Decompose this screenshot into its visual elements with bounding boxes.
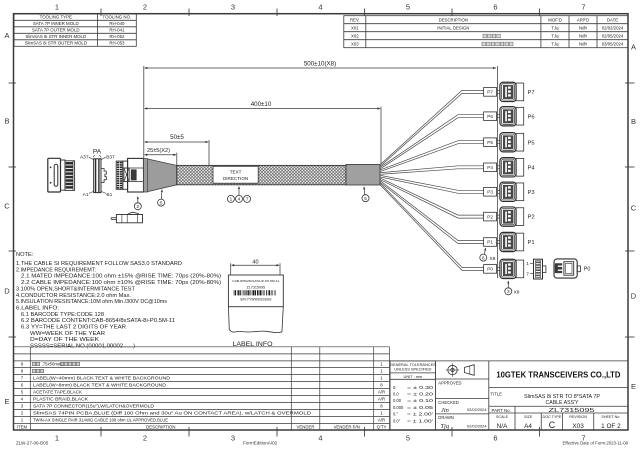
svg-text:5: 5 bbox=[160, 200, 163, 205]
dimension 40 for label bbox=[231, 263, 280, 274]
svg-text:DESCRIPTION: DESCRIPTION bbox=[146, 425, 175, 430]
svg-text:X03: X03 bbox=[572, 423, 584, 430]
strain relief boot (25±5 X2) bbox=[144, 159, 177, 192]
svg-text:2.2 CABLE IMPEDANCE:100 ohm ±1: 2.2 CABLE IMPEDANCE:100 ohm ±10% @RISE T… bbox=[21, 280, 221, 286]
acetate tape wrap (item 5) bbox=[346, 164, 380, 185]
svg-text:E: E bbox=[4, 397, 9, 406]
svg-text:A/R: A/R bbox=[378, 397, 385, 402]
svg-text:= ± 0.05: = ± 0.05 bbox=[407, 405, 434, 410]
svg-text:P6: P6 bbox=[528, 114, 535, 120]
wire marker label P6 (item 6) bbox=[484, 112, 497, 121]
svg-text:B: B bbox=[631, 117, 636, 126]
svg-text:LABEL(W=40mm) BLACK TEXT & WHI: LABEL(W=40mm) BLACK TEXT & WHITE BACKGRO… bbox=[33, 376, 170, 381]
grid row letters right bbox=[631, 43, 637, 392]
balloon 2 pointer to PA overmold bbox=[134, 203, 141, 210]
svg-text:2.IMPEDANCE REQUIREMEMT:: 2.IMPEDANCE REQUIREMEMT: bbox=[16, 267, 96, 273]
svg-text:1: 1 bbox=[230, 197, 233, 202]
svg-text:SlimSAS 8i STR TO 8*SATA 7P: SlimSAS 8i STR TO 8*SATA 7P bbox=[524, 394, 601, 400]
svg-text:2: 2 bbox=[21, 411, 24, 416]
svg-text:P1: P1 bbox=[528, 240, 535, 246]
svg-text:= ± 0.30: = ± 0.30 bbox=[407, 385, 434, 390]
svg-text:1: 1 bbox=[21, 418, 24, 423]
svg-text:TJq: TJq bbox=[551, 33, 559, 38]
svg-text:500±10(X8): 500±10(X8) bbox=[304, 61, 336, 68]
svg-text:02/05/2024: 02/05/2024 bbox=[602, 33, 624, 38]
svg-text:2: 2 bbox=[143, 434, 147, 443]
wire marker label P2 (item 6) bbox=[484, 212, 497, 221]
connector P7 SATA 7P (item 3) bbox=[500, 82, 524, 101]
svg-text:RH-040: RH-040 bbox=[109, 21, 125, 26]
svg-text:UNLESS SPECIFIED: UNLESS SPECIFIED bbox=[394, 367, 431, 372]
svg-text:RH-053: RH-053 bbox=[109, 41, 125, 46]
connector P4 SATA 7P (item 3) bbox=[500, 158, 524, 177]
svg-text:8: 8 bbox=[380, 404, 383, 409]
svg-text:4: 4 bbox=[318, 3, 322, 12]
svg-text:A: A bbox=[631, 43, 636, 52]
svg-text:ITEM: ITEM bbox=[17, 425, 28, 430]
svg-text:TJq: TJq bbox=[551, 41, 559, 46]
svg-text:INITIAL DESIGN: INITIAL DESIGN bbox=[437, 25, 469, 30]
svg-text:REV.: REV. bbox=[350, 17, 360, 22]
wire marker label P5 (item 6) bbox=[484, 138, 497, 147]
svg-text:1: 1 bbox=[526, 261, 529, 266]
svg-text:02/02/2024: 02/02/2024 bbox=[602, 25, 624, 30]
connector P6 SATA 7P (item 3) bbox=[500, 107, 524, 126]
svg-text:B: B bbox=[4, 117, 9, 126]
balloon 5 pointer to acetate tape bbox=[362, 195, 369, 202]
svg-text:1: 1 bbox=[380, 362, 383, 367]
connector P1 SATA 7P (item 3) bbox=[500, 232, 524, 251]
TEXT DIRECTION marker box bbox=[213, 166, 258, 183]
svg-text:02/02/2024: 02/02/2024 bbox=[467, 424, 487, 429]
svg-text:APPROVED: APPROVED bbox=[438, 380, 461, 385]
svg-text:10GTEK TRANSCEIVERS CO.,LTD: 10GTEK TRANSCEIVERS CO.,LTD bbox=[496, 369, 620, 379]
svg-text:SCALE: SCALE bbox=[496, 415, 509, 419]
svg-text:PLASTIC BRAID,BLACK: PLASTIC BRAID,BLACK bbox=[33, 397, 88, 402]
svg-text:4: 4 bbox=[21, 397, 24, 402]
svg-text:PART No.: PART No. bbox=[492, 408, 511, 413]
svg-text:SATA 7P INNER MOLD: SATA 7P INNER MOLD bbox=[33, 21, 79, 26]
svg-text:WW=WEEK OF THE YEAR: WW=WEEK OF THE YEAR bbox=[30, 331, 105, 337]
svg-text:SIZE: SIZE bbox=[524, 415, 533, 419]
svg-text:3: 3 bbox=[507, 289, 510, 294]
svg-text:P5: P5 bbox=[487, 140, 493, 145]
grid row letters left bbox=[4, 31, 10, 406]
title block frame bbox=[390, 361, 629, 430]
svg-text:TOOLING TYPE: TOOLING TYPE bbox=[40, 15, 72, 20]
svg-text:6.3 YY=THE LAST 2 DIGITS OF YE: 6.3 YY=THE LAST 2 DIGITS OF YEAR bbox=[21, 325, 126, 331]
svg-text:5.INSULATION RESISTANCE:10M oh: 5.INSULATION RESISTANCE:10M ohm Min./300… bbox=[16, 299, 167, 305]
dimension 25±5(X2) bbox=[145, 153, 177, 165]
svg-text:D=DAY OF THE WEEK: D=DAY OF THE WEEK bbox=[30, 337, 99, 343]
svg-text:DATE: DATE bbox=[607, 17, 618, 22]
general tolerances block text bbox=[390, 362, 436, 423]
svg-text:6.LABEL INFO:: 6.LABEL INFO: bbox=[16, 306, 59, 312]
svg-text:Ndh: Ndh bbox=[579, 33, 587, 38]
svg-text:= ± 2.00': = ± 2.00' bbox=[407, 412, 433, 417]
svg-text:VENDER P/N: VENDER P/N bbox=[334, 425, 360, 430]
svg-text:S/N:YYWWDSSSSS: S/N:YYWWDSSSSS bbox=[240, 297, 272, 301]
svg-text:X01: X01 bbox=[351, 25, 359, 30]
svg-text:E: E bbox=[631, 382, 636, 391]
svg-text:6: 6 bbox=[493, 3, 497, 12]
svg-text:5: 5 bbox=[406, 434, 410, 443]
svg-text:2: 2 bbox=[143, 3, 147, 12]
dimension 500±10(X8) bbox=[144, 66, 498, 278]
svg-text:APP'D: APP'D bbox=[577, 17, 590, 22]
svg-text:MOF'D: MOF'D bbox=[548, 17, 561, 22]
svg-text:Ndh: Ndh bbox=[579, 41, 587, 46]
svg-text:P7: P7 bbox=[528, 90, 535, 96]
svg-text:4.CONDUCTOR RESISTANCE:2.0 ohm: 4.CONDUCTOR RESISTANCE:2.0 ohm Max. bbox=[16, 293, 131, 299]
svg-text:Q'TY: Q'TY bbox=[377, 425, 387, 430]
PA connector latch side view bbox=[111, 212, 142, 223]
svg-text:RH-052: RH-052 bbox=[109, 34, 125, 39]
svg-text:0.°: 0.° bbox=[393, 412, 398, 417]
svg-text:3: 3 bbox=[231, 434, 235, 443]
svg-text:,75x50mm,: ,75x50mm, bbox=[42, 362, 63, 367]
connector PA overmold (item 2) bbox=[116, 158, 143, 192]
svg-text:SHEET No.: SHEET No. bbox=[601, 415, 620, 419]
svg-text:1.THE CABLE SI REQUIREMENT FOL: 1.THE CABLE SI REQUIREMENT FOLLOW SAS3.0… bbox=[16, 261, 182, 267]
svg-text:02/02/2024: 02/02/2024 bbox=[467, 407, 487, 412]
connector PA side view with PA A37 B37 A1 B1 labels bbox=[89, 155, 106, 193]
svg-text:6: 6 bbox=[482, 255, 485, 260]
balloon 3 X8 pointer to P0 connector bbox=[505, 288, 512, 295]
svg-text:25±5(X2): 25±5(X2) bbox=[147, 148, 170, 154]
svg-text:SATA 7P OUTER MOLD: SATA 7P OUTER MOLD bbox=[32, 28, 80, 33]
svg-text:TJq: TJq bbox=[551, 25, 559, 30]
grid column numbers bottom bbox=[55, 434, 586, 443]
connector P0 SATA 7P (item 3) bbox=[500, 259, 524, 278]
svg-text:A4: A4 bbox=[524, 423, 532, 430]
svg-text:PA: PA bbox=[93, 148, 102, 155]
svg-text:D: D bbox=[631, 292, 637, 301]
connector P2 SATA 7P (item 3) bbox=[500, 207, 524, 226]
svg-text:A1: A1 bbox=[83, 192, 89, 198]
svg-text:Jin: Jin bbox=[441, 407, 449, 414]
svg-text:1: 1 bbox=[380, 411, 383, 416]
wire fanout: 8 twin-ax pairs bbox=[380, 90, 500, 270]
connector P5 SATA 7P (item 3) bbox=[500, 133, 524, 152]
grid column numbers top bbox=[55, 3, 586, 12]
notes text block bbox=[16, 252, 221, 350]
svg-text:ZL7315095: ZL7315095 bbox=[246, 285, 265, 289]
svg-text:P1: P1 bbox=[487, 240, 493, 245]
svg-text:X03: X03 bbox=[351, 41, 359, 46]
svg-text:3.100% OPEN,SHORT&INTERMITANCE: 3.100% OPEN,SHORT&INTERMITANCE TEST bbox=[16, 286, 136, 292]
svg-text:A37: A37 bbox=[80, 155, 89, 161]
svg-text:0.0°: 0.0° bbox=[393, 418, 401, 423]
svg-text:3: 3 bbox=[21, 404, 24, 409]
scale size doc type revision sheet row bbox=[496, 415, 621, 430]
svg-text:P2: P2 bbox=[528, 215, 535, 221]
svg-text:ZLW-27-06-B05: ZLW-27-06-B05 bbox=[16, 441, 49, 446]
svg-text:P3: P3 bbox=[487, 190, 493, 195]
svg-text:Effective Date of Form:2023-11: Effective Date of Form:2023-11-08 bbox=[562, 441, 628, 446]
balloon 5 pointer to boot bbox=[158, 199, 165, 206]
svg-text:= ± 0.20: = ± 0.20 bbox=[407, 392, 434, 397]
svg-text:03/05/2024: 03/05/2024 bbox=[602, 41, 624, 46]
svg-text:B1: B1 bbox=[106, 192, 112, 198]
svg-text:= ± 1.00': = ± 1.00' bbox=[407, 418, 433, 423]
connector P0 mating end view bbox=[554, 259, 580, 278]
svg-text:5: 5 bbox=[21, 390, 24, 395]
svg-text:A: A bbox=[4, 31, 9, 40]
svg-text:1: 1 bbox=[55, 434, 59, 443]
svg-text:P7: P7 bbox=[487, 90, 493, 95]
svg-text:ZL7315095: ZL7315095 bbox=[549, 408, 595, 414]
svg-text:DRAWN: DRAWN bbox=[438, 415, 454, 420]
svg-text:A/R: A/R bbox=[378, 390, 385, 395]
svg-text:6.1 BARCODE TYPE:CODE 128: 6.1 BARCODE TYPE:CODE 128 bbox=[21, 312, 104, 318]
svg-text:P4: P4 bbox=[487, 165, 493, 170]
svg-text:TOOLING NO.: TOOLING NO. bbox=[103, 15, 132, 20]
svg-text:5: 5 bbox=[364, 196, 367, 201]
svg-text:N/A: N/A bbox=[497, 423, 508, 430]
svg-text:REVISION: REVISION bbox=[569, 415, 587, 419]
BOM row 8 chinese bag text marks bbox=[33, 369, 36, 372]
svg-text:SlimSAS 8i STR OUTER MOLD: SlimSAS 8i STR OUTER MOLD bbox=[25, 41, 87, 46]
svg-text:RH-041: RH-041 bbox=[109, 28, 125, 33]
label (item 7) barcode label drawing bbox=[228, 275, 283, 307]
svg-text:SATA 7P CONNECTOR(15u"),W/LATC: SATA 7P CONNECTOR(15u"),W/LATCH&OVERMOLD bbox=[33, 404, 154, 409]
svg-text:VENDER: VENDER bbox=[297, 425, 315, 430]
svg-text:X8: X8 bbox=[490, 256, 496, 262]
svg-text:LABEL(W=8mm) BLACK TEXT & WHIT: LABEL(W=8mm) BLACK TEXT & WHITE BACKGROU… bbox=[33, 383, 166, 388]
svg-text:P6: P6 bbox=[487, 114, 493, 119]
svg-text:0.0: 0.0 bbox=[393, 392, 399, 397]
BOM parts table bbox=[14, 347, 390, 430]
svg-text:400±10: 400±10 bbox=[251, 101, 272, 108]
svg-text:FormEditionA/02: FormEditionA/02 bbox=[243, 441, 278, 446]
tooling table bbox=[14, 14, 136, 47]
svg-text:0.000: 0.000 bbox=[393, 405, 404, 410]
svg-text:7: 7 bbox=[526, 272, 529, 277]
wire marker label P3 (item 6) bbox=[484, 188, 497, 197]
svg-text:7: 7 bbox=[21, 376, 24, 381]
svg-text:40: 40 bbox=[252, 260, 258, 266]
svg-text:P4: P4 bbox=[528, 165, 536, 171]
svg-text:NOTE:: NOTE: bbox=[16, 252, 34, 258]
BOM table text bbox=[17, 362, 387, 430]
svg-text:C: C bbox=[549, 420, 556, 430]
connector PA front view bbox=[48, 158, 75, 192]
svg-text:7: 7 bbox=[581, 3, 585, 12]
svg-text:B37: B37 bbox=[106, 155, 115, 161]
svg-text:3: 3 bbox=[231, 3, 235, 12]
svg-text:2: 2 bbox=[137, 204, 140, 209]
svg-text:0.: 0. bbox=[393, 385, 396, 390]
svg-text:6: 6 bbox=[493, 434, 497, 443]
svg-text:8: 8 bbox=[380, 383, 383, 388]
svg-text:0.00: 0.00 bbox=[393, 398, 402, 403]
wire marker label P0 (item 6) bbox=[484, 265, 497, 274]
svg-text:Ndh: Ndh bbox=[579, 25, 587, 30]
svg-text:CHECKED: CHECKED bbox=[438, 400, 458, 405]
svg-text:5: 5 bbox=[406, 3, 410, 12]
wire marker label P7 (item 6) bbox=[484, 88, 497, 97]
connector P3 SATA 7P (item 3) bbox=[500, 182, 524, 201]
svg-text:A/R: A/R bbox=[378, 418, 385, 423]
svg-text:D: D bbox=[4, 287, 10, 296]
plastic braid cable section (item 4) bbox=[177, 165, 346, 184]
dimension 400±10 bbox=[145, 107, 381, 165]
svg-text:UNIT : mm: UNIT : mm bbox=[404, 374, 423, 379]
revision table bbox=[344, 16, 628, 48]
svg-text:SlimSAS 8i STR INNER MOLD: SlimSAS 8i STR INNER MOLD bbox=[25, 34, 86, 39]
svg-text:X02: X02 bbox=[351, 33, 359, 38]
svg-text:TITLE: TITLE bbox=[491, 392, 503, 397]
svg-text:4: 4 bbox=[318, 434, 322, 443]
connector P0 side view with pins 1 and 7 bbox=[530, 259, 546, 279]
svg-text:DESCRIPTION: DESCRIPTION bbox=[439, 17, 468, 22]
svg-text:4: 4 bbox=[238, 197, 241, 202]
wire marker label P1 (item 6) bbox=[484, 238, 497, 247]
dimension 50±5 bbox=[145, 140, 209, 165]
svg-text:1: 1 bbox=[55, 3, 59, 12]
svg-text:1: 1 bbox=[380, 376, 383, 381]
svg-text:ACETATE TAPE,BLACK: ACETATE TAPE,BLACK bbox=[33, 390, 82, 395]
svg-text:50±5: 50±5 bbox=[170, 134, 184, 141]
svg-text:7: 7 bbox=[246, 197, 249, 202]
svg-text:TWIN-AX SINGLE PAIR 31AWG CABL: TWIN-AX SINGLE PAIR 31AWG CABLE 100 ohm … bbox=[33, 418, 168, 423]
svg-text:= ± 0.10: = ± 0.10 bbox=[407, 398, 434, 403]
svg-text:6: 6 bbox=[21, 383, 24, 388]
svg-text:P0: P0 bbox=[584, 267, 591, 273]
svg-text:TEXT: TEXT bbox=[230, 170, 242, 175]
svg-text:P2: P2 bbox=[487, 214, 493, 219]
svg-text:P5: P5 bbox=[528, 140, 535, 146]
svg-text:SlimSAS 74PIN PCBA,BLUE (Diff: SlimSAS 74PIN PCBA,BLUE (Diff 100 Ohm an… bbox=[33, 411, 311, 416]
svg-text:Tjq: Tjq bbox=[441, 423, 450, 430]
svg-text:9: 9 bbox=[21, 362, 24, 367]
svg-text:DIRECTION: DIRECTION bbox=[223, 176, 248, 181]
svg-text:2.1 MATED IMPEDANCE:100 ohm ±1: 2.1 MATED IMPEDANCE:100 ohm ±15% @RISE T… bbox=[21, 274, 221, 280]
svg-text:C: C bbox=[4, 202, 10, 211]
svg-text:1 OF 2: 1 OF 2 bbox=[601, 423, 621, 430]
third angle projection symbol bbox=[446, 363, 474, 376]
svg-text:1: 1 bbox=[380, 369, 383, 374]
revision X02 X03 chinese description marks bbox=[482, 34, 513, 46]
svg-text:CAB-8654/8xSATA-8i-P0.5M-11: CAB-8654/8xSATA-8i-P0.5M-11 bbox=[232, 279, 279, 283]
svg-text:C: C bbox=[631, 204, 637, 213]
svg-text:P0: P0 bbox=[487, 267, 493, 272]
label backing outline with wavy bottom bbox=[228, 307, 283, 333]
balloon 6 X8 pointer to P1 label bbox=[480, 254, 487, 261]
BOM row 9 chinese packaging box text marks bbox=[33, 362, 36, 365]
svg-text:CABLE ASS'Y: CABLE ASS'Y bbox=[546, 400, 580, 406]
svg-text:DOC TYPE: DOC TYPE bbox=[543, 415, 562, 419]
svg-text:6.2 BARCODE CONTENT:CAB-8654/8: 6.2 BARCODE CONTENT:CAB-8654/8xSATA-8i-P… bbox=[21, 318, 175, 324]
svg-text:P3: P3 bbox=[528, 190, 535, 196]
approval rows bbox=[438, 380, 487, 430]
svg-text:X8: X8 bbox=[514, 289, 520, 295]
svg-text:8: 8 bbox=[21, 369, 24, 374]
balloons 1 4 7 pointer to braid bbox=[227, 195, 234, 202]
wire marker label P4 (item 6) bbox=[484, 163, 497, 172]
